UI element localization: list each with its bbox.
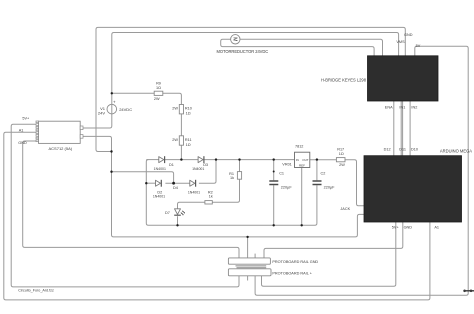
Arduino Mega module	[364, 148, 472, 222]
dark wire stub bottom right	[463, 290, 474, 293]
wire ACS712 A1 to arduino A1 (outer bottom loop)	[4, 132, 430, 300]
wire row 1 D3 cathode to 7812 IN	[205, 159, 295, 161]
node row2 left	[145, 182, 147, 184]
capacitor C2 220uF	[313, 171, 336, 189]
svg-text:5V+: 5V+	[392, 225, 400, 229]
svg-text:IN2: IN2	[411, 106, 417, 110]
wire row 2 D4 cathode up to row 1	[199, 160, 216, 184]
wire H-bridge ENA to arduino D12	[393, 101, 395, 156]
svg-text:1Ω: 1Ω	[186, 143, 191, 147]
svg-text:VMS: VMS	[396, 40, 405, 44]
svg-text:220µF: 220µF	[324, 185, 336, 189]
rail plus pin stub	[247, 276, 249, 281]
resistor R9 1ohm 2W	[154, 82, 163, 102]
svg-text:1k: 1k	[209, 194, 213, 198]
svg-text:ACS712 (5A): ACS712 (5A)	[49, 146, 73, 151]
rail GND pin stub	[254, 254, 256, 258]
wire C1 bottom lead	[273, 185, 275, 225]
svg-text:D11: D11	[399, 148, 406, 152]
node jack negative / rail tap	[246, 236, 248, 238]
wire R9 branch from V1+ node	[112, 92, 154, 94]
svg-text:2W: 2W	[339, 163, 345, 167]
node C1 top	[273, 158, 275, 160]
capacitor C1 220uF	[269, 171, 292, 189]
svg-text:GND: GND	[404, 225, 413, 229]
wire motor right lead to H-bridge output A	[240, 39, 383, 56]
svg-text:MOTORREDUCTOR 24VDC: MOTORREDUCTOR 24VDC	[217, 49, 269, 54]
svg-text:R10: R10	[185, 106, 192, 110]
diode D4 1N4001	[173, 180, 200, 195]
wire jack negative tap down to rail GND	[247, 237, 249, 258]
wire 7812 REF down	[301, 168, 303, 226]
svg-text:+: +	[113, 99, 116, 104]
node GND join at ACS return	[110, 150, 112, 152]
svg-text:IN: IN	[296, 158, 299, 162]
node cross branch	[110, 171, 112, 173]
node V1+/R9	[111, 92, 113, 94]
svg-text:GND: GND	[404, 33, 413, 37]
svg-text:1N4001: 1N4001	[153, 194, 165, 198]
svg-text:A1: A1	[434, 225, 439, 229]
wire R10 to R11	[180, 114, 182, 136]
svg-text:JACK: JACK	[340, 207, 350, 211]
wire rail plus to H-bridge 5V (right loop)	[255, 46, 468, 295]
wire C1 top lead	[273, 160, 275, 181]
wire R11 down to diode row 1	[180, 145, 182, 159]
svg-text:REF: REF	[299, 163, 305, 167]
svg-text:R11: R11	[185, 138, 192, 142]
wire GND net: H-bridge GND pin to ACS712 return (outer top loop)	[96, 27, 405, 151]
protoboard rail GND	[228, 258, 318, 266]
resistor R10 1ohm 2W	[172, 105, 192, 116]
voltage regulator VR01 7812	[282, 145, 310, 168]
LED D7	[165, 209, 185, 216]
diode D2 1N4001	[153, 180, 165, 199]
svg-text:1N4001: 1N4001	[188, 190, 200, 194]
svg-text:1Ω: 1Ω	[156, 86, 161, 90]
wire R1 top lead	[239, 160, 241, 172]
svg-text:D4: D4	[173, 186, 178, 190]
svg-text:H-BRIDGE KEYES L298: H-BRIDGE KEYES L298	[321, 78, 367, 83]
svg-text:220µF: 220µF	[281, 185, 293, 189]
svg-text:1Ω: 1Ω	[186, 112, 191, 116]
wire arduino 5V+ to rail plus	[262, 222, 396, 286]
wire rail GND to arduino GND	[264, 222, 403, 258]
svg-text:5V: 5V	[416, 44, 421, 48]
wire C2 top lead	[316, 160, 318, 181]
wire V1 minus to ACS712 IP+ pin	[83, 114, 112, 128]
node R1 top	[238, 158, 240, 160]
svg-text:7812: 7812	[295, 145, 303, 149]
svg-text:R17: R17	[337, 147, 344, 151]
svg-text:24VDC: 24VDC	[119, 107, 132, 112]
svg-text:PROTOBOARD RAIL GND: PROTOBOARD RAIL GND	[272, 260, 318, 264]
wire motor left lead loop to H-bridge output B	[221, 39, 374, 56]
node C2 top	[316, 158, 318, 160]
wire left bus: row1 left end down to bottom mid wire, to C2 bottom	[146, 160, 317, 226]
svg-text:1N4001: 1N4001	[154, 167, 166, 171]
svg-text:1Ω: 1Ω	[339, 152, 344, 156]
wire R2 to LED D7 top	[178, 202, 205, 208]
node REF bottom	[301, 224, 303, 226]
svg-text:24V: 24V	[98, 111, 105, 116]
node row1 / row2 riser	[215, 158, 217, 160]
svg-text:1N4001: 1N4001	[192, 167, 204, 171]
resistor R1 1k	[229, 172, 241, 180]
svg-text:C2: C2	[321, 171, 326, 175]
wire R17 to arduino JACK plus	[345, 160, 364, 206]
wire ACS712 IP- return down-left column to jack negative	[83, 136, 364, 237]
voltage source V1 24V	[98, 99, 132, 115]
svg-text:Circuito_Foro_Ard.fzz: Circuito_Foro_Ard.fzz	[18, 289, 54, 293]
wire row 1 D1 cathode to D3 anode	[165, 159, 198, 161]
diode D1 1N4001	[154, 156, 174, 171]
svg-text:5V+: 5V+	[22, 117, 30, 121]
svg-text:C1: C1	[279, 171, 284, 175]
wire row 2 D2 cathode to D4 anode	[165, 182, 189, 184]
svg-text:GND: GND	[18, 141, 27, 145]
node LED bottom	[176, 224, 178, 226]
svg-text:1k: 1k	[230, 176, 234, 180]
svg-text:ENA: ENA	[385, 106, 393, 110]
protoboard rail plus	[228, 268, 312, 276]
wire LED D7 cathode to bottom wire	[177, 216, 179, 225]
svg-text:M: M	[231, 37, 237, 41]
resistor R11 1ohm 2W	[172, 136, 191, 147]
wire 7812 OUT to R17	[310, 159, 337, 161]
svg-text:R9: R9	[156, 82, 161, 86]
junction dots	[110, 92, 318, 238]
svg-text:OUT: OUT	[302, 158, 309, 162]
wire row 2 D2 anode	[146, 182, 155, 184]
H-bridge KEYES L298 module	[321, 56, 438, 101]
wire R9 to R10 chain corner	[163, 93, 182, 104]
wire row 1 segment D1 anode	[146, 159, 159, 161]
wire R1 bottom to R2	[212, 179, 239, 202]
node row1 chain join	[180, 158, 182, 160]
svg-text:2W: 2W	[172, 138, 178, 142]
svg-text:D12: D12	[384, 148, 391, 152]
wire cross branch to diode row 2	[112, 172, 174, 184]
node C1 bottom	[273, 224, 275, 226]
svg-text:A1: A1	[19, 128, 24, 132]
resistor R17 1ohm 2W	[336, 147, 345, 166]
svg-text:ARDUINO MEGA: ARDUINO MEGA	[440, 148, 472, 153]
ACS712 current sensor U1	[36, 121, 83, 151]
node row2 mid	[172, 182, 175, 185]
wire H-bridge IN2 to arduino D10	[409, 101, 411, 156]
svg-text:D1: D1	[169, 163, 174, 167]
svg-text:IN1: IN1	[399, 106, 405, 110]
svg-text:D7: D7	[165, 211, 170, 215]
bendpoint C1 lead	[273, 171, 275, 173]
wire ACS712 5V+ to protoboard rail plus (left loop)	[11, 124, 239, 287]
svg-text:2W: 2W	[172, 106, 178, 110]
diode D3 1N4001	[192, 156, 208, 171]
svg-text:PROTOBOARD RAIL +: PROTOBOARD RAIL +	[272, 271, 312, 275]
wire VMS net: H-bridge VMS pin to V1+ (inner top loop)	[112, 33, 399, 105]
svg-text:VR01: VR01	[282, 163, 292, 167]
wire H-bridge IN1 to arduino D11 (doubled)	[401, 101, 402, 156]
svg-text:D10: D10	[411, 148, 418, 152]
wire ACS712 GND to protoboard rail GND	[23, 141, 239, 258]
motor M1 motorreductor	[217, 35, 269, 54]
svg-text:2W: 2W	[154, 97, 160, 101]
resistor R2 1k	[205, 190, 213, 204]
